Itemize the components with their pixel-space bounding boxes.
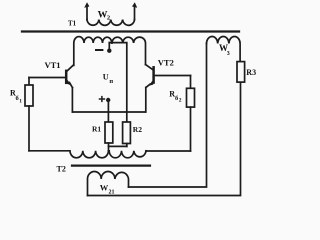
transistor VT2 [152,67,155,82]
svg-text:3: 3 [227,51,230,57]
resistor R3 [237,62,245,83]
wire Rb2 to T2 winding right end [146,150,191,152]
VT2 base wire [154,75,191,77]
transformer T2 core [72,165,150,167]
svg-text:W: W [100,183,109,193]
wire plus dot to R1 [107,100,109,122]
VT1 emitter wire down [71,88,73,112]
junction wire R1/R2 bottoms [109,145,127,147]
minus sign [96,49,102,51]
wire W21 left lead to R3 bottom [88,82,241,195]
svg-text:2: 2 [179,98,182,104]
svg-text:R3: R3 [246,68,256,77]
svg-text:T2: T2 [57,164,66,173]
winding W1 primary (below core, center-tapped) [74,37,112,66]
center tap of W1 [108,43,110,49]
svg-text:2: 2 [107,15,110,22]
wire Rb2 bottom down [190,107,192,151]
resistor Rb1 [28,78,30,86]
VT1 base wire [29,77,66,79]
svg-text:R1: R1 [92,125,101,134]
resistor R1 [105,122,113,143]
transistor VT1 [65,71,68,83]
winding W3 (T1 feedback, right) [207,36,241,61]
wire R1 bottom to T2 center tap [108,143,110,151]
svg-text:21: 21 [109,189,115,195]
wire center tap to R2 (L-shape) [109,43,127,122]
wire W21 right lead to W3 [129,44,207,188]
winding W21 (T2 bottom) [88,172,129,196]
svg-text:1: 1 [19,99,22,105]
resistor Rb2 [190,76,192,89]
transformer T2 upper winding (center-tapped base drive) [29,151,108,158]
svg-text:R2: R2 [133,125,142,134]
VT2 emitter wire down [145,87,147,112]
transformer T1 core [22,30,239,32]
wire Rb1 bottom to T2 winding left end [28,106,30,151]
plus terminal [100,97,105,102]
center tap terminal dot [107,49,111,53]
resistor R2 [123,122,131,144]
svg-text:T1: T1 [68,20,77,28]
emitter bus wire [72,111,145,113]
svg-text:VT1: VT1 [45,60,61,70]
svg-text:VT2: VT2 [158,57,174,67]
svg-text:п: п [109,78,113,85]
winding W2 (T1 secondary, top) [87,8,135,20]
svg-text:U: U [103,72,109,81]
